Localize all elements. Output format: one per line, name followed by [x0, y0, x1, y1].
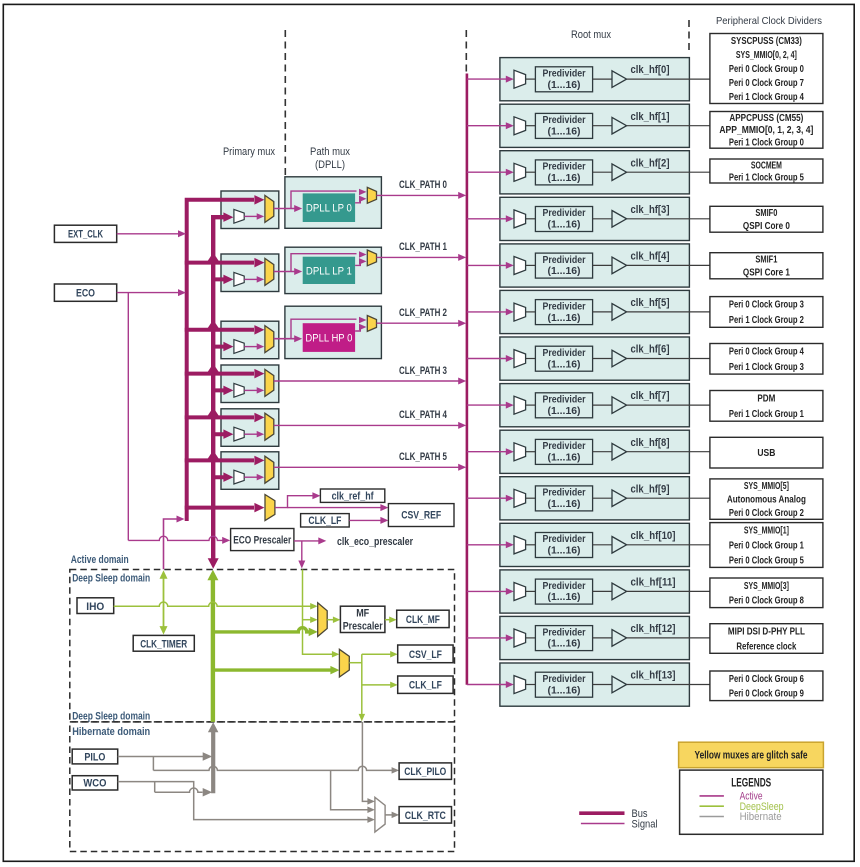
svg-text:DPLL LP 1: DPLL LP 1: [306, 265, 352, 277]
EXT_CLK source box: [54, 225, 116, 242]
svg-text:Predivider: Predivider: [543, 114, 586, 126]
svg-text:(1...16): (1...16): [548, 126, 581, 138]
svg-text:(1...16): (1...16): [548, 358, 581, 370]
root mux row clk_hf[8]: [467, 430, 710, 473]
svg-text:clk_hf[10]: clk_hf[10]: [631, 530, 676, 542]
path mux with DPLL LP 1: [285, 247, 382, 293]
WCO source box: [72, 776, 118, 790]
svg-text:(1...16): (1...16): [548, 79, 581, 91]
primary mux 1: [221, 191, 279, 229]
peripheral clock divider box for clk_hf[10]: [710, 523, 823, 568]
clk_ref mux: [265, 495, 275, 521]
svg-text:USB: USB: [757, 448, 775, 459]
wire WCO branch to hibernate bus: [155, 782, 213, 797]
svg-text:CLK_MF: CLK_MF: [406, 614, 440, 626]
svg-text:clk_hf[13]: clk_hf[13]: [631, 670, 676, 682]
svg-text:Peri 1 Clock Group 5: Peri 1 Clock Group 5: [729, 172, 804, 183]
wire CLK_PATH 2 to root bus: [377, 307, 467, 327]
svg-text:MIPI DSI D-PHY PLL: MIPI DSI D-PHY PLL: [728, 627, 805, 638]
svg-text:(1...16): (1...16): [548, 452, 581, 464]
svg-text:SYS_MMIO[3]: SYS_MMIO[3]: [744, 581, 789, 592]
svg-text:Predivider: Predivider: [543, 161, 586, 173]
wire bus A to primary mux 4 main input: [185, 364, 265, 379]
root mux vertical feed bus: [466, 74, 469, 685]
root mux row clk_hf[6]: [467, 337, 710, 380]
svg-text:MF: MF: [356, 608, 369, 620]
svg-text:Peri 0 Clock Group 1: Peri 0 Clock Group 1: [729, 540, 804, 551]
root mux row clk_hf[7]: [467, 384, 710, 427]
wire clk_ref mux output to clk_ref_hf and CSV_REF: [275, 492, 389, 511]
root mux row clk_hf[13]: [467, 663, 710, 706]
peripheral clock divider box for clk_hf[11]: [710, 578, 823, 608]
svg-text:Hibernate: Hibernate: [740, 811, 782, 823]
dashed separator right of root mux column: [688, 20, 690, 53]
svg-text:Hibernate domain: Hibernate domain: [72, 726, 150, 738]
CSV_REF box: [388, 504, 454, 527]
svg-text:CLK_PATH 4: CLK_PATH 4: [399, 409, 448, 421]
svg-text:Peri 1 Clock Group 0: Peri 1 Clock Group 0: [729, 138, 804, 149]
svg-text:SOCMEM: SOCMEM: [751, 160, 782, 171]
root mux row clk_hf[9]: [467, 477, 710, 520]
green eco-prescaler line into deep sleep: [303, 570, 340, 658]
wire IHO rising into bus A (active domain): [164, 516, 185, 570]
svg-text:ECO: ECO: [76, 287, 95, 299]
wire CLK_PATH 0 to root bus: [377, 179, 467, 199]
svg-text:Predivider: Predivider: [543, 68, 586, 80]
clk_ref_hf box: [320, 489, 384, 503]
svg-text:ECO Prescaler: ECO Prescaler: [233, 535, 292, 547]
root mux row clk_hf[0]: [467, 58, 710, 101]
title Root mux: [571, 29, 611, 41]
svg-text:clk_hf[1]: clk_hf[1]: [631, 111, 670, 123]
root mux row clk_hf[1]: [467, 104, 710, 147]
svg-text:Predivider: Predivider: [543, 533, 586, 545]
svg-text:CLK_PATH 3: CLK_PATH 3: [399, 365, 447, 377]
svg-text:IHO: IHO: [86, 601, 104, 613]
title Primary mux: [223, 146, 275, 158]
wire branch down into deep sleep (eco prescaler): [298, 541, 305, 569]
svg-text:Path mux: Path mux: [310, 146, 350, 158]
svg-text:Signal: Signal: [632, 819, 658, 831]
svg-text:CLK_PILO: CLK_PILO: [404, 766, 446, 778]
svg-text:CLK_PATH 0: CLK_PATH 0: [399, 179, 447, 191]
wire bus A to primary mux 5 main input: [185, 407, 265, 422]
CSV_LF box: [398, 645, 453, 663]
wire bus A to primary mux 6 main input: [185, 450, 265, 465]
svg-text:SYS_MMIO[0, 2, 4]: SYS_MMIO[0, 2, 4]: [736, 50, 797, 61]
svg-text:Peri 0 Clock Group 5: Peri 0 Clock Group 5: [729, 555, 804, 566]
LEGENDS box: [680, 770, 823, 834]
svg-text:Predivider: Predivider: [543, 347, 586, 359]
Deep Sleep domain label (top): [72, 572, 150, 584]
svg-text:PDM: PDM: [757, 394, 775, 405]
svg-text:SMIF0: SMIF0: [755, 208, 777, 219]
svg-text:clk_hf[4]: clk_hf[4]: [631, 251, 670, 263]
wire CLK_PATH 5 to root bus: [274, 451, 466, 471]
svg-text:SYS_MMIO[5]: SYS_MMIO[5]: [744, 481, 789, 492]
wire bus B to primary mux 6 secondary input: [211, 472, 233, 482]
svg-text:Peri 0 Clock Group 2: Peri 0 Clock Group 2: [729, 508, 804, 519]
svg-text:CSV_REF: CSV_REF: [401, 510, 441, 522]
svg-text:Peri 0 Clock Group 4: Peri 0 Clock Group 4: [729, 347, 804, 358]
svg-text:clk_hf[11]: clk_hf[11]: [631, 577, 676, 589]
svg-text:(DPLL): (DPLL): [315, 159, 345, 171]
svg-text:CSV_LF: CSV_LF: [409, 649, 442, 661]
svg-text:Active domain: Active domain: [71, 554, 129, 566]
svg-text:Predivider: Predivider: [543, 626, 586, 638]
wire bus B to primary mux 4 secondary input: [211, 386, 233, 396]
wire ECO branch down to ECO Prescaler: [128, 293, 230, 544]
svg-text:Primary mux: Primary mux: [223, 146, 275, 158]
svg-text:Predivider: Predivider: [543, 673, 586, 685]
PILO source box: [72, 749, 118, 764]
root mux row clk_hf[3]: [467, 197, 710, 240]
path mux with DPLL LP 0: [285, 177, 382, 229]
Active domain label: [71, 554, 129, 566]
svg-text:Peri 0 Clock Group 8: Peri 0 Clock Group 8: [729, 596, 804, 607]
svg-text:Deep Sleep domain: Deep Sleep domain: [72, 710, 150, 722]
wire CLK_PATH 1 to root bus: [377, 241, 467, 261]
primary mux 4: [221, 365, 279, 403]
peripheral clock divider box for clk_hf[0]: [710, 34, 823, 104]
svg-text:clk_hf[0]: clk_hf[0]: [631, 64, 670, 76]
svg-text:Predivider: Predivider: [543, 487, 586, 499]
wire WCO main to CLK_RTC mux: [118, 782, 375, 823]
svg-text:Predivider: Predivider: [543, 440, 586, 452]
svg-text:Peri 0 Clock Group 6: Peri 0 Clock Group 6: [729, 674, 804, 685]
svg-text:Predivider: Predivider: [543, 207, 586, 219]
svg-text:(1...16): (1...16): [548, 312, 581, 324]
svg-text:SYSCPUSS (CM33): SYSCPUSS (CM33): [731, 36, 802, 47]
wire CLK_RTC mux output: [385, 812, 399, 819]
svg-text:clk_hf[7]: clk_hf[7]: [631, 390, 670, 402]
wire CLK_PATH 3 to root bus: [274, 365, 466, 385]
bus A (EXT_CLK/ECO/IHO source bus): [187, 195, 265, 521]
primary mux 2: [221, 254, 279, 292]
CLK_PILO box: [399, 763, 451, 780]
ECO Prescaler box: [231, 529, 294, 551]
svg-text:Peri 1 Clock Group 4: Peri 1 Clock Group 4: [729, 92, 804, 103]
svg-text:clk_hf[9]: clk_hf[9]: [631, 483, 670, 495]
peripheral clock divider box for clk_hf[6]: [710, 344, 823, 375]
svg-text:CLK_RTC: CLK_RTC: [405, 810, 446, 822]
wire MF Prescaler to CLK_MF: [385, 617, 397, 624]
CLK_RTC mux: [375, 797, 385, 832]
svg-text:Peri 0 Clock Group 3: Peri 0 Clock Group 3: [729, 300, 804, 311]
wire bus B to primary mux 5 secondary input: [211, 429, 233, 439]
svg-text:Prescaler: Prescaler: [343, 621, 384, 633]
CLK_LF box (deep sleep): [398, 676, 453, 693]
svg-text:Predivider: Predivider: [543, 254, 586, 266]
wire EXT_CLK to bus A: [117, 230, 186, 237]
wire LF mux output to CSV_LF / CLK_LF / hibernate: [349, 651, 397, 721]
peripheral clock divider box for clk_hf[9]: [710, 479, 823, 519]
Signal legend sample: [581, 819, 658, 831]
wire green bus to MF mux (bus input): [213, 628, 318, 637]
svg-text:Peripheral Clock Dividers: Peripheral Clock Dividers: [716, 15, 822, 27]
svg-text:clk_hf[5]: clk_hf[5]: [631, 297, 670, 309]
svg-text:Peri 1 Clock Group 2: Peri 1 Clock Group 2: [729, 315, 804, 326]
svg-text:Peri 0 Clock Group 7: Peri 0 Clock Group 7: [729, 78, 804, 89]
svg-text:(1...16): (1...16): [548, 591, 581, 603]
yellow note: muxes glitch safe: [679, 742, 824, 768]
root mux row clk_hf[2]: [467, 151, 710, 194]
wire bus A to clk_ref mux: [185, 503, 265, 513]
MF mux: [318, 603, 328, 637]
svg-text:Predivider: Predivider: [543, 580, 586, 592]
svg-text:Peri 1 Clock Group 3: Peri 1 Clock Group 3: [729, 362, 804, 373]
wire primary mux 1 to DPLL input: [274, 205, 302, 212]
svg-text:Predivider: Predivider: [543, 394, 586, 406]
svg-text:CLK_LF: CLK_LF: [409, 680, 442, 692]
svg-text:clk_hf[2]: clk_hf[2]: [631, 157, 670, 169]
LF mux: [339, 649, 349, 677]
wire ECO to bus A: [117, 289, 186, 296]
wire IHO to MF mux: [114, 602, 318, 610]
svg-text:Predivider: Predivider: [543, 300, 586, 312]
root mux row clk_hf[12]: [467, 616, 710, 659]
wire bus A to primary mux 2 main input: [185, 253, 265, 268]
primary mux 3: [221, 321, 279, 359]
green deep-sleep bus (continuation of bus B): [207, 570, 218, 722]
svg-text:(1...16): (1...16): [548, 405, 581, 417]
IHO source box: [77, 598, 114, 614]
svg-text:clk_hf[3]: clk_hf[3]: [631, 204, 670, 216]
ECO source box: [54, 284, 116, 301]
svg-text:QSPI Core 0: QSPI Core 0: [743, 221, 790, 232]
peripheral clock divider box for clk_hf[3]: [710, 206, 823, 232]
path mux with DPLL HP 0: [285, 306, 382, 358]
svg-text:LEGENDS: LEGENDS: [731, 777, 771, 789]
svg-text:WCO: WCO: [83, 778, 106, 790]
gray continuation of LF line to CLK_RTC mux input 1: [362, 722, 375, 805]
svg-text:Root mux: Root mux: [571, 29, 611, 41]
wire primary mux 3 to DPLL input: [274, 335, 302, 342]
svg-text:SMIF1: SMIF1: [755, 255, 777, 266]
svg-text:SYS_MMIO[1]: SYS_MMIO[1]: [744, 526, 789, 537]
Bus legend sample: [579, 808, 648, 820]
svg-text:(1...16): (1...16): [548, 498, 581, 510]
primary mux 5: [221, 409, 279, 447]
peripheral clock divider box for clk_hf[2]: [710, 159, 823, 183]
wire green bus to LF mux (bus input): [213, 666, 340, 675]
svg-text:CLK_TIMER: CLK_TIMER: [140, 638, 187, 650]
svg-text:clk_hf[8]: clk_hf[8]: [631, 437, 670, 449]
wire bus A to primary mux 3 main input: [185, 320, 265, 335]
root mux row clk_hf[4]: [467, 244, 710, 287]
wire PILO branch to CLK_PILO: [153, 757, 399, 774]
svg-text:CLK_PATH 5: CLK_PATH 5: [399, 451, 447, 463]
Deep Sleep domain label (bottom): [72, 710, 150, 722]
svg-text:Peri 0 Clock Group 9: Peri 0 Clock Group 9: [729, 689, 804, 700]
svg-text:APP_MMIO[0, 1, 2, 3, 4]: APP_MMIO[0, 1, 2, 3, 4]: [719, 125, 813, 136]
peripheral clock divider box for clk_hf[8]: [710, 437, 823, 468]
peripheral clock divider box for clk_hf[4]: [710, 253, 823, 279]
wire MF mux to MF Prescaler: [327, 617, 340, 624]
dashed separator between primary and path mux columns: [284, 30, 286, 176]
svg-text:(1...16): (1...16): [548, 219, 581, 231]
svg-text:QSPI Core 1: QSPI Core 1: [743, 268, 790, 279]
gray hibernate bus: [208, 722, 219, 793]
CLK_LF box (active domain): [301, 514, 350, 528]
peripheral clock divider box for clk_hf[12]: [710, 624, 823, 654]
svg-text:APPCPUSS (CM55): APPCPUSS (CM55): [729, 113, 803, 124]
title Path mux (DPLL): [310, 146, 350, 171]
svg-text:CLK_PATH 2: CLK_PATH 2: [399, 307, 447, 319]
wire CLK_LF to CSV_REF: [349, 517, 388, 524]
bus B (deep-sleep feed bus): [208, 212, 234, 568]
primary mux 6: [221, 452, 279, 490]
svg-text:(1...16): (1...16): [548, 545, 581, 557]
peripheral clock divider box for clk_hf[7]: [710, 391, 823, 422]
dashed separator left of root mux column: [465, 30, 467, 76]
wire CLK_PATH 4 to root bus: [274, 409, 466, 429]
Deep Sleep domain dashed box: [70, 570, 455, 722]
svg-text:Reference clock: Reference clock: [736, 641, 796, 652]
root mux row clk_hf[11]: [467, 570, 710, 613]
svg-text:EXT_CLK: EXT_CLK: [68, 229, 103, 241]
svg-text:(1...16): (1...16): [548, 172, 581, 184]
wire ECO Prescaler output clk_eco_prescaler: [294, 536, 414, 548]
wire bus B to primary mux 3 secondary input: [211, 342, 233, 352]
svg-text:DPLL HP 0: DPLL HP 0: [305, 333, 352, 345]
peripheral clock divider box for clk_hf[1]: [710, 112, 823, 149]
wire bus B to primary mux 2 secondary input: [211, 275, 233, 285]
svg-text:Peri 0 Clock Group 0: Peri 0 Clock Group 0: [729, 64, 804, 75]
svg-text:Autonomous Analog: Autonomous Analog: [727, 495, 806, 506]
svg-text:Deep Sleep domain: Deep Sleep domain: [72, 572, 150, 584]
peripheral clock divider box for clk_hf[5]: [710, 297, 823, 328]
svg-text:Peri 1 Clock Group 1: Peri 1 Clock Group 1: [729, 409, 804, 420]
svg-text:DPLL LP 0: DPLL LP 0: [306, 203, 352, 215]
peripheral clock divider box for clk_hf[13]: [710, 671, 823, 701]
Hibernate domain label: [72, 726, 150, 738]
wire PILO to hibernate bus: [118, 752, 213, 761]
svg-text:(1...16): (1...16): [548, 684, 581, 696]
svg-text:CLK_PATH 1: CLK_PATH 1: [399, 241, 447, 253]
title Peripheral Clock Dividers: [716, 15, 822, 27]
MF Prescaler box: [340, 606, 385, 632]
svg-text:clk_hf[12]: clk_hf[12]: [631, 623, 676, 635]
root mux row clk_hf[10]: [467, 523, 710, 566]
wire PILO-branch to CLK_RTC mux input 2: [331, 770, 375, 813]
svg-text:clk_hf[6]: clk_hf[6]: [631, 344, 670, 356]
CLK_MF box: [397, 610, 449, 627]
wire primary mux 2 to DPLL input: [274, 268, 302, 275]
CLK_RTC box: [399, 807, 451, 824]
green riser to active domain (IHO up arrow): [160, 570, 168, 634]
CLK_TIMER box: [133, 635, 194, 651]
svg-text:CLK_LF: CLK_LF: [308, 515, 341, 527]
Hibernate domain dashed box: [70, 722, 455, 852]
svg-text:Yellow muxes are glitch safe: Yellow muxes are glitch safe: [695, 750, 808, 762]
svg-text:clk_ref_hf: clk_ref_hf: [332, 491, 374, 503]
svg-text:PILO: PILO: [84, 751, 105, 763]
root mux row clk_hf[5]: [467, 290, 710, 333]
svg-text:(1...16): (1...16): [548, 638, 581, 650]
svg-text:clk_eco_prescaler: clk_eco_prescaler: [337, 536, 414, 548]
svg-text:(1...16): (1...16): [548, 265, 581, 277]
